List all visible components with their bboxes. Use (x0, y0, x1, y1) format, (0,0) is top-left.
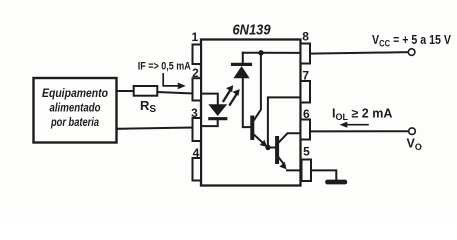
equipment box (Equipamento alimentado por bateria) (34, 78, 117, 143)
svg-text:Equipamento: Equipamento (42, 88, 108, 100)
svg-text:6: 6 (303, 107, 310, 121)
junction node Q1 emitter / Q2 base (265, 145, 270, 150)
svg-text:5: 5 (303, 145, 310, 159)
pin 2 (192, 66, 201, 101)
svg-text:IF => 0,5 mA: IF => 0,5 mA (138, 61, 191, 73)
pin 4 (193, 146, 202, 181)
wire node to pin 7 (268, 97, 301, 145)
wire pin 8 to Vcc terminal (310, 52, 408, 53)
svg-text:2: 2 (192, 66, 199, 80)
IC 6N139 body U1 (201, 40, 301, 186)
wire resistor to pin 2 (157, 92, 192, 93)
pin 3 (191, 106, 201, 141)
LED anode wire from pin 2 (201, 94, 218, 105)
IOL current arrow (340, 122, 369, 128)
pin 8 (301, 30, 311, 64)
pin 7 (301, 68, 311, 102)
svg-text:4: 4 (193, 146, 200, 160)
photodiode anode wire to Q1 base (243, 78, 251, 127)
photodiode D1 (233, 53, 251, 79)
svg-text:1: 1 (191, 30, 198, 44)
wire box to resistor (117, 90, 134, 92)
svg-text:VO: VO (407, 137, 422, 153)
wire pin 5 to ground (311, 170, 336, 179)
svg-text:por bateria: por bateria (50, 117, 99, 129)
svg-text:alimentado: alimentado (50, 103, 101, 115)
transistor Q2 (output) (271, 133, 301, 170)
IF current arrow (163, 74, 186, 89)
Vcc terminal circle (408, 49, 415, 56)
internal Vcc rail wire to pin 8 (243, 52, 301, 54)
svg-text:IOL ≥ 2 mA: IOL ≥ 2 mA (332, 106, 392, 122)
pin 5 (302, 145, 312, 181)
svg-text:3: 3 (191, 106, 198, 120)
svg-text:RS: RS (140, 98, 156, 115)
resistor RS (134, 86, 158, 115)
wire box to pin 3 (117, 128, 193, 129)
pin 6 (301, 107, 311, 140)
svg-text:VCC = + 5 a 15 V: VCC = + 5 a 15 V (372, 33, 452, 49)
svg-text:8: 8 (302, 30, 309, 44)
junction node on Vcc rail (258, 50, 263, 55)
light emission arrow b (230, 89, 240, 105)
svg-text:7: 7 (302, 68, 309, 82)
ground (325, 180, 347, 185)
Vo terminal circle (409, 128, 416, 135)
transistor Q1 (input darlington) (252, 55, 267, 147)
pin 1 (191, 30, 201, 64)
LED (emitter diode) (208, 104, 227, 118)
light emission arrow a (224, 85, 234, 101)
svg-text:6N139: 6N139 (233, 21, 272, 38)
LED cathode wire to pin 3 (201, 120, 218, 126)
wire pin 6 to Vo terminal (310, 130, 409, 132)
